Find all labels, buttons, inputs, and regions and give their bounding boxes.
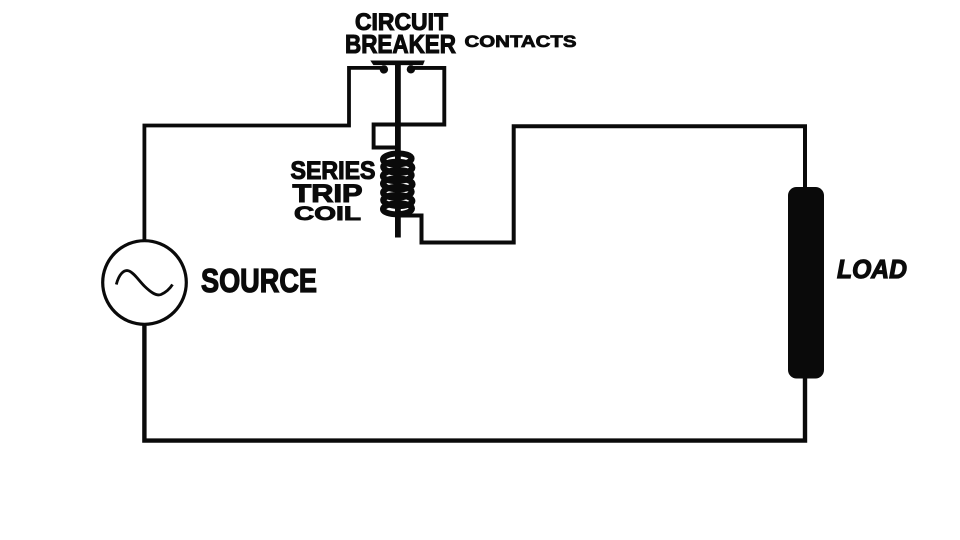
circuit breaker moving contact bar bbox=[370, 61, 425, 66]
wire from coil bottom right and up to load top bbox=[399, 126, 805, 242]
right stationary contact dot bbox=[407, 65, 415, 73]
circuit breaker operating rod bbox=[395, 62, 401, 238]
wire from right breaker contact down, left and down to trip coil top bbox=[374, 68, 445, 148]
left stationary contact dot bbox=[380, 65, 388, 73]
AC source circle bbox=[103, 241, 187, 325]
svg-text:COIL: COIL bbox=[294, 203, 361, 225]
sine wave inside source bbox=[116, 271, 172, 295]
wire from load bottom along page bottom to source bottom bbox=[144, 325, 805, 441]
wire from left breaker contact down and left to source top bbox=[144, 68, 384, 241]
svg-text:BREAKER: BREAKER bbox=[345, 29, 456, 59]
svg-text:SOURCE: SOURCE bbox=[201, 262, 317, 299]
svg-text:CONTACTS: CONTACTS bbox=[465, 32, 577, 51]
svg-text:LOAD: LOAD bbox=[837, 254, 907, 284]
series trip coil winding bbox=[383, 153, 413, 215]
load block bbox=[788, 187, 824, 379]
